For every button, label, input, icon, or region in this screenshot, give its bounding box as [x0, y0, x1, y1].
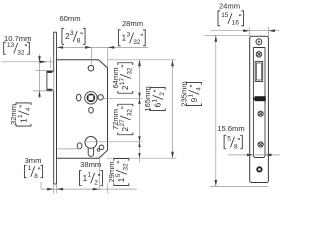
- svg-text:38mm: 38mm: [80, 160, 101, 169]
- svg-text:8: 8: [34, 173, 38, 180]
- svg-text:24mm: 24mm: [219, 2, 240, 11]
- svg-text:1: 1: [28, 165, 32, 172]
- svg-text:1: 1: [188, 93, 195, 97]
- svg-text:60mm: 60mm: [59, 14, 80, 23]
- svg-text:2: 2: [159, 92, 166, 96]
- svg-text:5: 5: [115, 173, 122, 177]
- svg-text:32: 32: [123, 163, 130, 171]
- svg-text:3: 3: [127, 31, 131, 38]
- svg-text:8: 8: [234, 143, 238, 150]
- svg-text:1: 1: [151, 98, 158, 102]
- svg-text:17: 17: [119, 78, 126, 86]
- svg-text:4: 4: [25, 107, 32, 111]
- svg-text:32: 32: [133, 39, 141, 46]
- svg-text:1: 1: [88, 172, 92, 179]
- svg-text:8: 8: [77, 38, 81, 45]
- svg-text:2: 2: [94, 179, 98, 186]
- svg-text:15.6mm: 15.6mm: [217, 124, 244, 133]
- svg-text:32: 32: [127, 67, 134, 75]
- svg-text:3mm: 3mm: [25, 156, 42, 165]
- svg-text:13: 13: [7, 42, 15, 49]
- svg-text:3: 3: [70, 30, 74, 37]
- svg-text:27: 27: [119, 119, 126, 127]
- svg-text:15: 15: [221, 12, 229, 19]
- svg-text:1: 1: [17, 114, 24, 118]
- svg-text:32: 32: [127, 109, 134, 117]
- svg-text:28mm: 28mm: [122, 19, 143, 28]
- svg-text:5: 5: [227, 136, 231, 143]
- svg-text:32: 32: [17, 50, 25, 57]
- svg-text:29mm: 29mm: [107, 161, 116, 182]
- svg-text:16: 16: [232, 20, 240, 27]
- svg-text:4: 4: [195, 87, 202, 91]
